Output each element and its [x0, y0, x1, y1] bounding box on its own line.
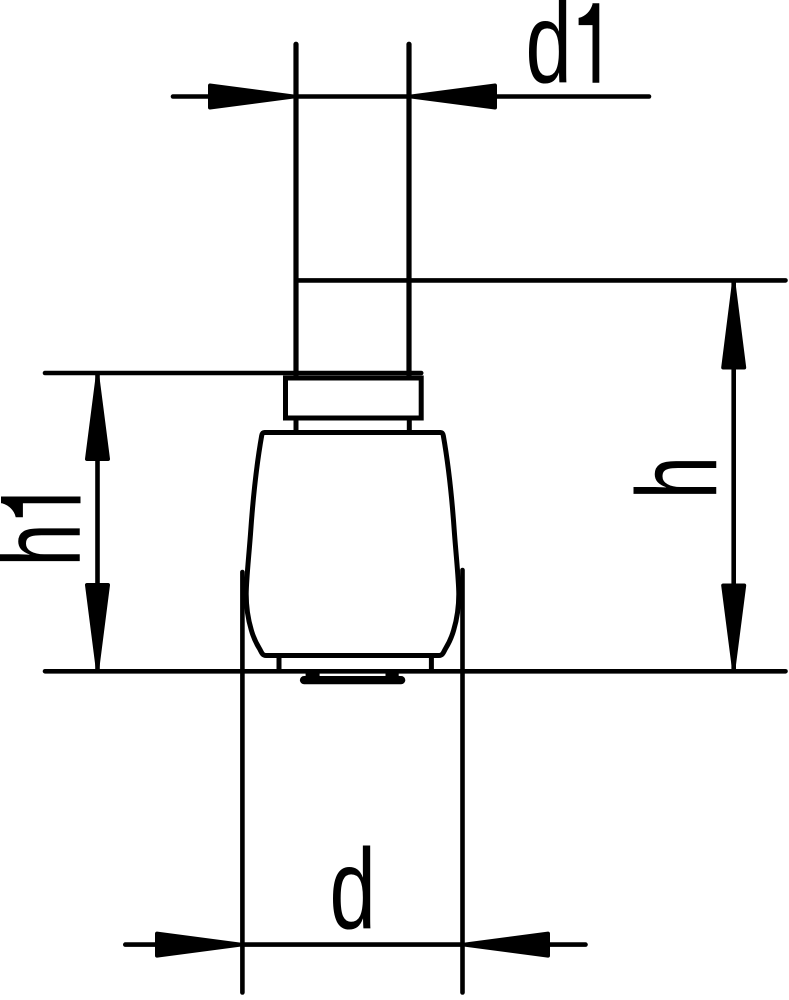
base extension line [45, 669, 786, 674]
arrowhead h1 down [87, 585, 108, 667]
foot right edge [429, 656, 434, 672]
extension line h top [296, 278, 786, 283]
collar [286, 378, 422, 418]
dimension line d1 left tail [173, 94, 210, 99]
dimension line d1 right tail [497, 94, 649, 99]
contact pad right tab [386, 670, 399, 678]
extension line h1 top [45, 371, 421, 376]
shaft right edge [406, 44, 411, 375]
contact pad left tab [306, 670, 320, 678]
dimension line d right tail [550, 942, 586, 947]
dimension line d1 middle [296, 94, 409, 99]
svg-text:d: d [526, 0, 572, 108]
extension line d left [240, 572, 245, 993]
dimension line h1 [95, 375, 100, 670]
svg-text:d: d [330, 827, 376, 954]
neck right edge [407, 421, 412, 432]
arrowhead d1 right [411, 86, 495, 108]
barrel body outline [246, 433, 459, 656]
label d1 digit 1 [579, 3, 600, 83]
arrowhead h1 up [87, 378, 108, 460]
dimension line d left tail [125, 942, 156, 947]
arrowhead d left [157, 934, 240, 956]
dimension line d middle [242, 942, 462, 947]
arrowhead h down [723, 586, 744, 668]
svg-text:h: h [614, 456, 741, 499]
svg-text:h: h [0, 523, 105, 566]
contact pad plate [300, 676, 405, 684]
label h1 digit 1 [1, 497, 81, 518]
arrowhead h up [723, 285, 744, 368]
arrowhead d right [465, 934, 548, 956]
foot left edge [277, 656, 282, 672]
arrowhead d1 left [210, 86, 294, 108]
neck left edge [294, 421, 299, 432]
dimension line h [731, 281, 736, 670]
extension line d right [460, 570, 465, 993]
shaft left edge [293, 44, 298, 375]
